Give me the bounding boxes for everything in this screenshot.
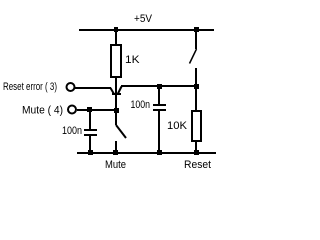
wire C2 to ground rail [158, 111, 160, 152]
junction Mute wire to S1 vertical [114, 108, 119, 113]
capacitor C1 plates [84, 129, 97, 136]
wire node A to R2 [195, 88, 197, 110]
svg-text:100n: 100n [62, 125, 82, 137]
junction bottom rail C2 [157, 150, 162, 155]
junction node A to R2 [194, 84, 199, 89]
junction bottom rail C1 [88, 150, 93, 155]
svg-text:Reset: Reset [184, 159, 211, 171]
junction Mute wire to C1 [87, 107, 92, 112]
wire terminal to Q1 base [75, 87, 111, 89]
junction rail to R1 [114, 27, 118, 32]
switch S1 blade [116, 125, 126, 138]
svg-text:+5V: +5V [134, 13, 153, 25]
Q1 base slope left [111, 88, 115, 94]
wire R1 to Q1 and switch, central vertical [115, 78, 117, 125]
junction node A to C2 [157, 84, 162, 89]
svg-text:100n: 100n [131, 99, 151, 111]
wire C1 top [89, 111, 91, 129]
ground rail bottom [77, 152, 216, 154]
terminal Mute [68, 106, 76, 114]
wire rail to R1 [115, 31, 117, 45]
resistor R1 1K body [110, 44, 122, 78]
wire node A horizontal [121, 85, 197, 87]
switch S2 upper contact wire [195, 31, 197, 49]
junction rail to S2 [194, 27, 199, 32]
svg-text:Mute ( 4): Mute ( 4) [22, 105, 63, 117]
+5V power rail [79, 29, 214, 31]
Q1 slope right [118, 87, 122, 94]
wire R2 to ground rail [195, 142, 197, 152]
svg-text:Mute: Mute [105, 159, 126, 171]
switch S2 blade [190, 49, 197, 64]
junction bottom rail S1 [113, 150, 118, 155]
wire node A to C2 [158, 87, 160, 104]
resistor R2 10K body [191, 110, 202, 142]
svg-text:10K: 10K [167, 120, 188, 132]
wire Mute terminal to S1 [77, 109, 117, 111]
capacitor C2 plates [153, 104, 166, 111]
switch S1 lower contact wire [115, 141, 117, 152]
svg-text:Reset error ( 3): Reset error ( 3) [3, 81, 57, 93]
svg-text:1K: 1K [125, 54, 140, 66]
wire C1 to ground rail [89, 136, 91, 152]
terminal Reset error [67, 83, 75, 91]
junction bottom rail R2 [194, 150, 199, 155]
switch S2 lower contact wire [195, 68, 197, 84]
Q1 merge bar [112, 93, 121, 95]
